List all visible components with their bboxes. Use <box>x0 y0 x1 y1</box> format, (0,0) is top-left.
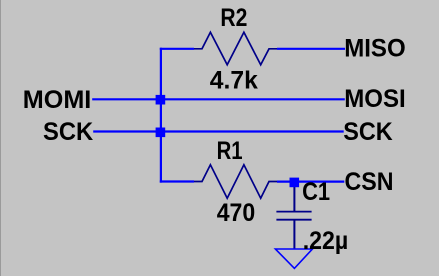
ground <box>275 249 312 268</box>
svg-text:MISO: MISO <box>344 35 406 63</box>
svg-text:MOSI: MOSI <box>344 85 406 113</box>
wire R1 right to CSN <box>277 181 344 183</box>
svg-text:4.7k: 4.7k <box>210 67 258 95</box>
svg-text:C1: C1 <box>302 178 330 206</box>
wire R2 left lead from vertical bus <box>160 48 194 50</box>
svg-text:470: 470 <box>217 199 256 227</box>
wire R2 right to MISO <box>277 48 345 50</box>
svg-text:CSN: CSN <box>345 168 394 196</box>
svg-text:R2: R2 <box>220 4 247 32</box>
svg-text:SCK: SCK <box>43 118 93 146</box>
wire SCK to SCK <box>93 130 344 132</box>
node junction MOMI bus <box>156 95 166 105</box>
wire vertical bus <box>160 48 162 183</box>
resistor R1 <box>194 165 277 198</box>
wire MOMI to MOSI <box>92 98 345 100</box>
svg-text:SCK: SCK <box>343 118 393 146</box>
wire R1 left lead from vertical bus <box>160 180 194 182</box>
left screenshot edge artifact <box>0 0 1 276</box>
svg-text:.22µ: .22µ <box>303 227 349 255</box>
node junction R1/C1/CSN <box>290 178 300 188</box>
resistor R2 <box>194 32 277 65</box>
node junction SCK bus <box>156 128 166 138</box>
svg-text:R1: R1 <box>217 137 243 165</box>
capacitor C1 <box>276 186 311 248</box>
svg-text:MOMI: MOMI <box>23 86 92 114</box>
